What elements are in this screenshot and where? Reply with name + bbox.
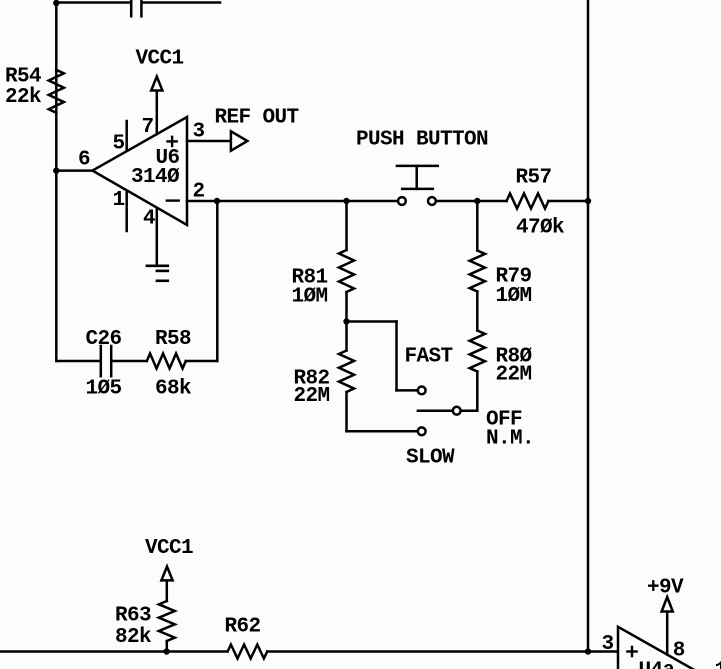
- wire R63 to VCC1 arrow: [166, 580, 169, 601]
- svg-text:1ØM: 1ØM: [496, 285, 532, 308]
- label PUSH BUTTON: [356, 129, 488, 152]
- label +9V: [647, 577, 684, 600]
- node R63 bottom junction: [163, 648, 169, 654]
- label OFF: [486, 409, 522, 432]
- op-amp U6 3140: [93, 117, 188, 225]
- label U4a: [639, 660, 676, 669]
- wire FAST branch horizontal: [347, 320, 397, 323]
- connector REF OUT triangle: [231, 131, 248, 150]
- wire pin6 horizontal: [56, 169, 92, 172]
- svg-text:314Ø: 314Ø: [131, 166, 180, 189]
- label pin 8 U4a: [673, 640, 685, 663]
- node pin2 feedback junction: [214, 198, 220, 204]
- svg-text:VCC1: VCC1: [136, 48, 184, 71]
- wire feedback vertical: [216, 201, 219, 361]
- wire push button to R57: [436, 200, 507, 203]
- svg-text:FAST: FAST: [405, 346, 453, 369]
- label FAST: [405, 346, 453, 369]
- label SLOW: [406, 447, 455, 470]
- node right rail bottom junction: [585, 648, 591, 654]
- svg-text:1: 1: [113, 189, 125, 212]
- wire R79 branch vertical top: [476, 201, 479, 251]
- svg-text:R57: R57: [516, 167, 552, 190]
- ground symbol: [147, 266, 168, 281]
- svg-text:6: 6: [78, 149, 90, 172]
- pin 5 stub: [125, 121, 128, 151]
- power VCC1 arrow top: [151, 77, 162, 91]
- wire SLOW horizontal: [347, 430, 418, 433]
- svg-text:47Øk: 47Øk: [516, 217, 564, 240]
- svg-text:22M: 22M: [294, 385, 330, 408]
- svg-text:R58: R58: [155, 328, 191, 351]
- svg-text:3: 3: [602, 633, 614, 656]
- resistor R80: [470, 331, 485, 372]
- label VCC1 top: [136, 48, 184, 71]
- label U6: [156, 147, 180, 170]
- resistor R79: [470, 251, 485, 292]
- power VCC1 arrow bottom: [161, 567, 172, 581]
- label C26 value 105: [86, 328, 122, 401]
- resistor R62: [228, 645, 268, 659]
- wire pin 8 U4a: [666, 612, 669, 655]
- wire pin 2 horizontal: [187, 200, 398, 203]
- op-amp U4a plus sign: [627, 647, 636, 656]
- resistor R58: [147, 354, 186, 369]
- wire R57 to right rail: [549, 200, 589, 203]
- label pin 1 U4a partial: [715, 660, 721, 669]
- wire OFF arm: [418, 409, 453, 412]
- node top-left corner junction: [53, 0, 59, 6]
- label pin 4: [143, 208, 155, 231]
- label pin 1: [113, 189, 125, 212]
- label N.M.: [486, 428, 534, 451]
- label pin 2: [193, 181, 205, 204]
- svg-text:4: 4: [143, 208, 155, 231]
- label 3140: [131, 166, 180, 189]
- wire right rail vertical: [587, 0, 590, 652]
- wire pin 3 output: [187, 140, 231, 143]
- wire pin 7 to VCC1: [156, 91, 159, 135]
- capacitor top (series, clipped): [131, 0, 141, 16]
- wire bottom horizontal left: [0, 650, 228, 653]
- svg-text:C26: C26: [86, 328, 122, 351]
- wire R80 down to OFF contact: [461, 372, 478, 411]
- label R54 value 22k: [5, 66, 41, 110]
- svg-text:5: 5: [113, 133, 125, 156]
- svg-text:68k: 68k: [155, 378, 191, 401]
- label R81 value 10M: [292, 267, 328, 309]
- label REF OUT: [215, 107, 299, 130]
- contact SLOW circle: [418, 427, 426, 435]
- contact FAST circle: [418, 387, 426, 395]
- label R57 value 470k: [516, 167, 565, 240]
- label VCC1 bottom: [145, 537, 193, 560]
- node pin6 junction dot: [53, 167, 59, 173]
- node FAST branch junction: [343, 318, 349, 324]
- svg-text:PUSH BUTTON: PUSH BUTTON: [356, 129, 488, 152]
- wire C26 to R58: [112, 360, 147, 363]
- svg-text:U4a: U4a: [639, 660, 676, 669]
- svg-text:82k: 82k: [115, 626, 151, 649]
- wire left rail vertical: [55, 3, 58, 362]
- wire bottom horizontal right: [267, 650, 618, 653]
- svg-text:1ØM: 1ØM: [292, 286, 328, 309]
- capacitor C26: [101, 346, 111, 376]
- contact OFF circle: [453, 407, 461, 415]
- label R58 value 68k: [155, 328, 191, 401]
- resistor R57: [507, 194, 549, 209]
- label pin 3 U4a: [602, 633, 614, 656]
- label pin 7: [142, 116, 154, 139]
- wire pin 4 to ground: [156, 209, 159, 266]
- svg-text:SLOW: SLOW: [406, 447, 455, 470]
- wire R58 to feedback vertical: [186, 360, 218, 363]
- op-amp U6 plus sign: [168, 137, 177, 146]
- svg-text:N.M.: N.M.: [486, 428, 534, 451]
- label pin 3: [193, 121, 205, 144]
- svg-text:22M: 22M: [496, 364, 532, 387]
- op-amp U6 minus sign: [167, 199, 179, 201]
- svg-text:R62: R62: [225, 616, 261, 639]
- label R82 value 22M: [294, 368, 330, 409]
- wire FAST branch to contact: [397, 389, 418, 392]
- wire feedback bottom horizontal left: [56, 360, 100, 363]
- op-amp U4a: [618, 627, 714, 669]
- pin 1 stub: [125, 191, 128, 231]
- wire R81 branch vertical top: [345, 201, 348, 250]
- wire FAST branch vertical: [395, 322, 398, 391]
- svg-text:1: 1: [715, 660, 721, 669]
- svg-text:REF OUT: REF OUT: [215, 107, 299, 130]
- resistor R63: [159, 601, 175, 641]
- wire R81 to junction: [345, 292, 348, 351]
- node R57 left junction: [474, 198, 480, 204]
- push button actuator: [397, 166, 438, 189]
- label R62: [225, 616, 261, 639]
- svg-text:R63: R63: [115, 605, 151, 628]
- svg-text:1Ø5: 1Ø5: [86, 378, 122, 401]
- svg-text:8: 8: [673, 640, 685, 663]
- svg-text:VCC1: VCC1: [145, 537, 193, 560]
- label pin 6: [78, 149, 90, 172]
- wire top horizontal left segment: [56, 1, 130, 4]
- wire R79 to R80: [476, 292, 479, 331]
- push button contacts: [398, 197, 436, 205]
- resistor R82: [339, 351, 354, 393]
- svg-text:+9V: +9V: [647, 577, 684, 600]
- label R79 value 10M: [496, 266, 532, 309]
- wire R63 bottom lead: [166, 641, 169, 652]
- power +9V arrow: [662, 597, 673, 612]
- wire top horizontal right segment: [142, 1, 220, 4]
- wire R82 to SLOW: [345, 392, 348, 431]
- svg-text:7: 7: [142, 116, 154, 139]
- node right rail junction: [585, 198, 591, 204]
- label pin 5: [113, 133, 125, 156]
- label R80 value 22M: [496, 346, 533, 387]
- node R81 branch junction: [343, 198, 349, 204]
- svg-text:22k: 22k: [5, 86, 41, 109]
- resistor R54: [49, 70, 64, 113]
- label R63 value 82k: [115, 605, 151, 650]
- resistor R81: [339, 250, 354, 292]
